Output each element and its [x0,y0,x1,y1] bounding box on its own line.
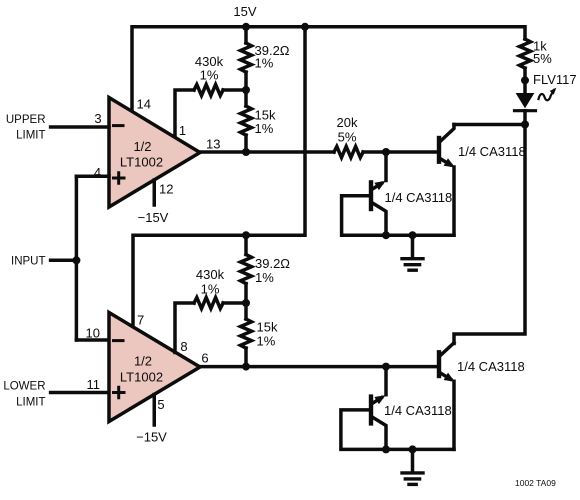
node junction at Q3 emitter [382,363,390,371]
wire INPUT stub [51,259,77,263]
svg-text:1%: 1% [201,282,220,297]
node junction R4/R5/R6 [242,299,250,307]
svg-text:LT1002: LT1002 [120,370,163,385]
op-amp U1b 1/2 LT1002 [109,313,200,422]
svg-text:1/4 CA3118: 1/4 CA3118 [458,144,526,159]
wire U1b pin 10 [76,338,109,342]
svg-text:12: 12 [159,182,173,197]
svg-text:6: 6 [201,351,208,366]
label R4 value 39.2Ω 1% [255,256,290,285]
svg-text:5%: 5% [338,130,357,145]
node INPUT junction [72,256,80,264]
svg-text:3: 3 [94,111,101,126]
svg-text:1%: 1% [200,68,219,83]
node Q3 collector at ground rail [382,445,390,453]
node ground junction (upper) [409,231,417,239]
svg-text:1%: 1% [257,334,276,349]
transistor Q4 1/4 CA3118 (lower LED driver) [439,343,455,450]
wire 15V branch down to U1b pin 7 [133,27,305,328]
label R8 value 1k 5% [533,39,552,67]
label R1 value 39.2Ω 1% [255,43,290,71]
label R3 value 15k 1% [255,108,276,137]
transistor Q2 1/4 CA3118 (upper LED driver) [439,125,455,236]
svg-text:13: 13 [206,137,220,152]
label R2 value 430k 1% [195,54,224,83]
svg-text:LIMIT: LIMIT [16,130,45,142]
svg-text:11: 11 [87,377,101,392]
svg-text:5: 5 [157,397,164,412]
wire U1a pin 12 to -15V [153,180,157,205]
svg-text:1/4 CA3118: 1/4 CA3118 [385,190,453,205]
svg-text:LOWER: LOWER [3,381,45,393]
svg-text:5%: 5% [533,51,552,66]
svg-text:7: 7 [137,313,144,328]
wire LOWER LIMIT to U1b pin 11 [51,391,109,395]
svg-text:1%: 1% [255,56,274,71]
wire Q2 collector to LED cathode node [454,123,525,127]
resistor R6 15k [241,303,252,367]
svg-text:20k: 20k [337,115,358,130]
wire U1a output pin 13 to R7 [200,150,334,154]
svg-text:430k: 430k [196,267,225,282]
svg-text:UPPER: UPPER [6,114,46,126]
label UPPER LIMIT [6,114,46,142]
wire R7 to Q2 base [363,150,437,154]
node LED cathode junction [521,121,529,129]
resistor R1 39.2ohm [241,27,252,90]
ground G2 [402,449,423,484]
resistor R7 20k [334,147,363,158]
node ground junction (lower) [409,445,417,453]
resistor R5 430k feedback of U1b [175,298,246,353]
svg-text:15V: 15V [233,4,256,19]
svg-text:LT1002: LT1002 [120,155,163,170]
svg-text:FLV117: FLV117 [533,72,577,87]
svg-text:1%: 1% [255,121,274,136]
resistor R2 430k feedback of U1a [175,85,246,138]
op-amp U1a 1/2 LT1002 [109,98,200,208]
wire Q1 base to ground rail (upper) [342,196,454,236]
transistor Q1 1/4 CA3118 (diode-connected clamp, upper) [371,152,386,235]
node Q1 collector at ground rail [382,231,390,239]
svg-text:LIMIT: LIMIT [16,397,45,409]
label LOWER LIMIT [3,381,45,409]
svg-text:−15V: −15V [136,430,167,445]
label R5 value 430k 1% [196,267,225,297]
wire Q3 base to ground rail (lower) [341,410,454,450]
svg-text:10: 10 [86,326,100,341]
svg-text:1%: 1% [255,270,274,285]
svg-text:1002 TA09: 1002 TA09 [515,478,556,488]
node junction at Q1 emitter [382,148,390,156]
svg-text:INPUT: INPUT [11,256,46,268]
wire U1b pin 5 to -15V [153,395,157,426]
resistor R4 39.2ohm [241,235,252,303]
node LED anode junction [521,76,529,84]
node junction R6 at U1b output [242,363,250,371]
label R6 value 15k 1% [257,320,278,349]
wire LED cathode down to Q4 collector [454,125,525,344]
svg-text:1/4 CA3118: 1/4 CA3118 [457,359,525,374]
svg-text:1/2: 1/2 [133,139,151,154]
svg-text:−15V: −15V [138,210,169,225]
wire UPPER LIMIT to U1a pin 3 [51,125,109,129]
wire 15V positive supply rail (U1a pin 14 up, across top, down to R8) [132,27,525,112]
transistor Q3 1/4 CA3118 (diode-connected clamp, lower) [371,367,386,450]
svg-text:8: 8 [180,339,187,354]
node junction R1/R2/R3 [242,86,250,94]
node junction R3 at U1a output [242,148,250,156]
resistor R8 1k [520,39,531,80]
node 15V rail junction at R1 [242,23,250,31]
resistor R3 15k [241,90,252,152]
label R7 value 20k 5% [337,115,358,145]
node 15V rail junction at U1b supply branch [301,23,309,31]
ground G1 [402,235,423,270]
svg-text:1/4 CA3118: 1/4 CA3118 [384,403,452,418]
svg-text:1: 1 [179,123,186,138]
LED D1 FLV117 [515,80,557,124]
svg-text:14: 14 [137,97,151,112]
svg-text:1/2: 1/2 [134,354,152,369]
wire U1a pin 4 [76,175,109,179]
wire U1b output pin 6 to Q4 base [200,365,437,369]
svg-text:15k: 15k [257,320,278,335]
svg-text:39.2Ω: 39.2Ω [255,256,290,271]
wire INPUT bus vertical [75,176,79,340]
node supply branch junction at R4 [242,231,250,239]
